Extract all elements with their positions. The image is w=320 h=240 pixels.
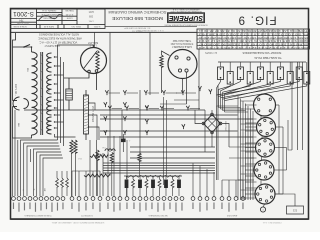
ballast lamp pin 2 (95, 70, 98, 73)
bridge corner terminal right (219, 122, 222, 125)
voltage table row line 1 (197, 31, 310, 33)
tip jack grid extra 2 (209, 89, 212, 94)
wire terminal C stems (107, 136, 109, 196)
svg-text:ARE TAKEN WITH AN ELECTRONIC: ARE TAKEN WITH AN ELECTRONIC (38, 37, 82, 41)
wire trunk to analyzer bus 5 (225, 111, 249, 113)
transformer T1 primary top lead (24, 47, 32, 52)
voltage table column line 5 (221, 29, 223, 49)
load resistor RL7 (277, 67, 283, 80)
resistor RB4 in cluster (171, 179, 174, 189)
voltage table column line 21 (303, 29, 305, 49)
voltage table column line 20 (297, 29, 299, 49)
electrolytic capacitor CE3 (black) (151, 180, 155, 189)
bridge corner terminal top (211, 113, 214, 116)
wire analyzer bus line 4 (245, 104, 247, 201)
voltage table column line 15 (272, 29, 274, 49)
wire to legend box (275, 194, 295, 206)
voltage table row line 3 (197, 38, 310, 40)
wire filament bus line 2 (60, 57, 62, 143)
title block column line A (36, 9, 38, 29)
svg-text:DATE: DATE (66, 17, 72, 20)
SUPREME logo box (168, 13, 205, 23)
wire trunk to analyzer bus 1 (217, 105, 239, 107)
voltage table column line 1 (201, 29, 203, 49)
wire left drop 1 (14, 110, 16, 196)
tip jack grid 6 (123, 130, 126, 135)
svg-text:SCALE NONE: SCALE NONE (13, 25, 27, 28)
terminal strip F terminal 2 label (199, 203, 200, 212)
terminal strip B terminal 5 (98, 197, 102, 201)
wire jack A 5 stub (185, 92, 197, 94)
bridge corner terminal bottom (211, 131, 214, 134)
load resistor bank bus (218, 61, 306, 63)
terminal strip B terminal 3 (84, 197, 88, 201)
terminal strip F terminal 2 (198, 197, 202, 201)
wire horizontal bus 13 (103, 172, 215, 174)
terminal strip E terminal 7 label (169, 203, 170, 210)
svg-text:MODEL 559 DELUXE: MODEL 559 DELUXE (112, 16, 163, 21)
svg-text:PRI.: PRI. (26, 68, 28, 73)
jack row A 3 (144, 90, 147, 95)
wire right link stub a (276, 104, 280, 106)
wire mid drop c (102, 153, 104, 196)
terminal strip A terminal 5 (34, 197, 38, 201)
svg-text:TO ANALYZER PLUG: TO ANALYZER PLUG (254, 56, 281, 60)
wire socket horiz 100 (174, 99, 199, 101)
transformer T1 primary bottom lead (21, 135, 32, 138)
terminal strip E terminal 3 label (145, 203, 146, 211)
divider tap line 1 (89, 103, 96, 110)
wire transformer tap 10 (55, 127, 58, 129)
terminal strip C terminal 3 label (119, 203, 120, 211)
pilot lamp under socket V5 (260, 207, 265, 212)
terminal strip B terminal 4 label (92, 203, 93, 210)
wire RL3 return (221, 80, 241, 91)
terminal strip E terminal 1 (132, 197, 136, 201)
wire mid drop b (96, 140, 98, 196)
wire horizontal bus 3 (100, 118, 253, 120)
svg-text:SUPREME: SUPREME (169, 14, 203, 21)
wire vertical 218 (217, 85, 219, 180)
terminal strip A terminal 8 label (51, 203, 52, 212)
bridge corner terminal left (202, 122, 205, 125)
voltage table column line 4 (216, 29, 218, 49)
resistor R13 horizontal (84, 174, 110, 177)
title block outline (11, 9, 106, 29)
terminal strip E terminal 6 (162, 197, 166, 201)
electrolytic capacitor CE5 (black) (177, 180, 181, 189)
voltage table column line 9 (241, 29, 243, 49)
wire horizontal bus 10 (103, 165, 215, 167)
jack row B 5 (186, 106, 189, 111)
wire socket horiz 104 (160, 103, 187, 105)
wire socket horiz 93 (176, 92, 183, 94)
top band lower rule (11, 31, 198, 33)
wire fan segment 7 (43, 158, 63, 196)
svg-text:CHECKED W.B.: CHECKED W.B. (41, 13, 57, 15)
voltage table column line 11 (251, 29, 253, 49)
wire bank trunk line 5 (224, 94, 226, 112)
svg-text:S-2001: S-2001 (93, 25, 101, 27)
transformer T1 secondary winding S4 (47, 117, 52, 134)
title block row line 1 (11, 18, 37, 20)
svg-text:110 V. 60 ~: 110 V. 60 ~ (14, 84, 17, 97)
tip jack grid 5 (104, 130, 107, 135)
wire RL6 return (217, 84, 271, 95)
wire jack A 1 stub (109, 92, 121, 94)
title block bottom row divider a (39, 25, 41, 29)
svg-text:SOCKET VOLTAGE READINGS: SOCKET VOLTAGE READINGS (242, 51, 281, 55)
terminal strip E terminal 2 (138, 197, 142, 201)
wire bank trunk line 2 (218, 89, 220, 107)
wire left drop 3 (17, 140, 19, 196)
terminal strip A terminal 10 label (62, 203, 63, 210)
voltage table column line 10 (246, 29, 248, 49)
line switch SW (24, 45, 30, 48)
resistor R6 vertical (96, 150, 99, 161)
wire right tall 2 (297, 62, 299, 150)
wire bridge left lead (195, 110, 202, 124)
resistor RB3 in cluster (158, 179, 161, 189)
analyzer socket pin 2 (187, 57, 190, 60)
wire analyzer bus line 2 (240, 99, 242, 201)
wire fan segment 6 (40, 155, 62, 196)
wire right horizontals (229, 146, 256, 148)
resistor RB1 in cluster (132, 179, 135, 189)
wire jack B 3 stub (149, 108, 160, 110)
svg-text:FIL 5.0 2.0 2.0 2.5 1.5 2.5 2.: FIL 5.0 2.0 2.0 2.5 1.5 2.5 2.0 2.0 2.0 … (198, 32, 308, 35)
load resistor RL8 (287, 72, 293, 85)
terminal strip A terminal 7 (45, 197, 49, 201)
divider tap line 2 (89, 115, 98, 140)
wire R5 bottom (161, 68, 163, 93)
svg-text:MA 3.0 2.3 1.3 4 6.2 5 3.1 12: MA 3.0 2.3 1.3 4 6.2 5 3.1 12 1.7 14.5 2… (198, 46, 308, 49)
voltage table column line 17 (282, 29, 284, 49)
wire horizontal bus 8 (130, 157, 215, 159)
wire RL2 return (219, 84, 231, 89)
voltage table column line 8 (236, 29, 238, 49)
AC line wire upper (13, 33, 16, 101)
AC line wire lower (13, 107, 22, 139)
wire secondary bottom (55, 134, 76, 137)
svg-text:TUBE ELEMENT TERMINALS: TUBE ELEMENT TERMINALS (24, 214, 52, 217)
title block row line mid2 (37, 15, 78, 17)
wire jack bundle vertical b (166, 100, 168, 176)
electrolytic capacitor CE2 (black) (138, 180, 142, 189)
load resistor RL10 (304, 72, 310, 85)
analyzer socket pin 1 (175, 56, 178, 59)
terminal strip E terminal 2 label (139, 203, 140, 212)
wire trunk to analyzer bus 3 (221, 108, 244, 110)
resistor R7 vertical (110, 153, 113, 164)
load resistor RL3 (237, 67, 243, 80)
wire inter-socket link 3 (261, 157, 263, 161)
terminal strip G terminal 1 label (221, 203, 222, 210)
terminal strip G terminal 3 (234, 197, 238, 201)
test socket V2 (6 pin) (257, 118, 276, 137)
jack row B 2 (125, 106, 128, 111)
electrolytic capacitor CE1 (black) (125, 180, 129, 189)
wire mid drop a (89, 140, 91, 196)
svg-text:SUPREME INSTRUMENTS CORP., GRE: SUPREME INSTRUMENTS CORP., GREENWOOD, MI… (51, 221, 104, 223)
svg-text:PLATE 135 180 180 250 180 250: PLATE 135 180 180 250 180 250 180 180 18… (198, 36, 308, 39)
svg-text:VOLTMETER AT 117 V. 60 ~ A.C.: VOLTMETER AT 117 V. 60 ~ A.C. (38, 40, 77, 44)
wire CE2 leads (139, 176, 141, 179)
wire RL8 return (221, 84, 291, 98)
wire transformer tap 3 (55, 74, 64, 76)
AC line plug body (13, 97, 28, 110)
terminal strip A terminal 8 (50, 197, 54, 201)
title block row line mid (37, 12, 63, 14)
svg-text:FIG. 9: FIG. 9 (237, 13, 276, 25)
svg-text:8-17-39: 8-17-39 (65, 13, 73, 15)
title block signature scribble (38, 15, 63, 21)
voltage table column line 6 (226, 29, 228, 49)
wire bank return trunk (216, 106, 218, 180)
wire RL7 return (219, 80, 281, 97)
divider tap dots (85, 94, 87, 96)
wire RL9 return (223, 80, 300, 100)
wire terminal D stem (126, 140, 128, 196)
wire analyzer bus line 6 (250, 109, 252, 201)
AC plug prong bottom (13, 106, 18, 108)
wire right link stub b (276, 126, 284, 128)
wire inter-socket link 1 (260, 116, 262, 119)
wire trunk to analyzer bus 4 (223, 110, 246, 112)
voltage table column line 16 (277, 29, 279, 49)
svg-text:ANALYZER: ANALYZER (226, 214, 237, 217)
legend box bottom right (287, 206, 304, 214)
terminal strip B terminal 1 (70, 197, 74, 201)
terminal strip B terminal 2 (77, 197, 81, 201)
analyzer socket pin 4 (185, 69, 188, 72)
title block bottom row divider d (87, 25, 89, 29)
wire socket right link 1 (278, 105, 280, 194)
title block column line C (76, 9, 78, 25)
wire inter-socket link 2 (261, 137, 263, 139)
terminal strip E terminal 3 (144, 197, 148, 201)
terminal strip E terminal 5 label (157, 203, 158, 212)
wire transformer tap 4 (55, 83, 58, 85)
load resistor RL9 (296, 67, 302, 80)
wire right tall 1 (291, 62, 293, 150)
terminal strip E terminal 9 label (181, 203, 182, 211)
terminal strip G terminal 4 label (242, 203, 243, 210)
wire transformer tap 2 (55, 65, 61, 67)
tip jack grid extra 1 (198, 86, 201, 91)
svg-text:8-4 = 9 SW: 8-4 = 9 SW (16, 22, 28, 24)
wire right link stub e (275, 193, 283, 195)
wire filament bus line 1 (57, 52, 59, 140)
jack row B 1 (108, 106, 111, 111)
wire bank trunk line 4 (222, 92, 224, 110)
terminal strip A terminal 10 (61, 197, 65, 201)
wire pilot lamp stem (263, 204, 264, 207)
wire analyzer bus line 1 (237, 96, 239, 200)
svg-text:NOTE: ALL VOLTAGE READINGS: NOTE: ALL VOLTAGE READINGS (39, 33, 79, 37)
tip jack grid 4 (123, 116, 126, 121)
analyzer socket pin 3 (178, 69, 181, 72)
voltage table column line 2 (206, 29, 208, 49)
jack row B 4 (160, 106, 163, 111)
svg-text:SCHEMATIC WIRING DIAGRAM: SCHEMATIC WIRING DIAGRAM (108, 10, 166, 14)
wire vertical 199 (198, 49, 200, 110)
wire inter-socket link 4 (260, 180, 262, 185)
wire transformer tap 9 (55, 121, 64, 123)
ballast lamp internal resistor (96, 51, 99, 71)
wire CE4 leads (165, 176, 167, 179)
wire bridge bottom lead (211, 134, 213, 147)
wire analyzer bus line 7 (252, 111, 254, 200)
wire socket pin stubs upper (241, 100, 255, 102)
load resistor RL6 (267, 72, 273, 85)
voltage table column line 14 (267, 29, 269, 49)
wire jack A 3 stub (148, 92, 160, 94)
load resistor RL1 (218, 67, 224, 80)
terminal strip F terminal 4 label (213, 203, 214, 210)
wire fan segment 3 (27, 146, 59, 196)
frame bottom emphasis (11, 218, 309, 220)
AC plug prong top (13, 100, 18, 102)
svg-text:VOLT. DIVIDER: VOLT. DIVIDER (91, 106, 93, 123)
ballast lamp lead right (96, 72, 98, 90)
wire CE3 leads (152, 176, 154, 179)
wire vertical center 110 (109, 32, 111, 152)
terminal strip A terminal 6 label (40, 203, 41, 211)
divider tap line 3 (89, 127, 100, 140)
tip jack col3 3 (145, 130, 148, 135)
wire jack A 2 stub (127, 92, 139, 94)
voltage table row line 5 (197, 45, 310, 47)
title block row line 3 (11, 24, 106, 26)
title block row line 2 (11, 21, 37, 23)
analyzer socket U1 circle (168, 50, 197, 79)
svg-text:DWG. NO.: DWG. NO. (71, 25, 81, 27)
wire vertical 150 (149, 32, 151, 95)
load resistor RL4 (247, 72, 253, 85)
wire right link stub c (275, 147, 287, 149)
wire CE5 leads (178, 176, 180, 179)
wire horizontal bus 9 (103, 162, 215, 164)
wire fan segment 4 (34, 149, 61, 196)
terminal strip C terminal 2 label (113, 203, 114, 212)
svg-text:CHG.: CHG. (88, 19, 94, 21)
cluster top zigzag bumps (126, 175, 180, 177)
load resistor RL5 (257, 67, 263, 80)
svg-text:6.3V: 6.3V (47, 88, 49, 93)
wire horizontal bus 6 (130, 146, 215, 148)
resistor group zigzags above terminals (56, 178, 59, 188)
wire horizontal bus 12 (103, 170, 215, 172)
terminal strip E terminal 5 (156, 197, 160, 201)
voltage table column line 18 (287, 29, 289, 49)
title block row line mid3 (37, 19, 78, 21)
wire RL5 return (225, 80, 261, 94)
terminal strip E terminal 4 (150, 197, 154, 201)
capacitor C1 lead bottom (68, 100, 70, 110)
svg-text:5Z3: 5Z3 (292, 208, 297, 211)
rectifier bridge outline (204, 115, 221, 133)
wire jack B 5 stub (190, 108, 201, 110)
transformer T1 core line 2 (42, 52, 44, 135)
terminal strip C terminal 2 (112, 197, 116, 201)
ballast lamp pin 1 (88, 70, 91, 73)
wire jack B 1 stub (112, 108, 123, 110)
wire horizontal bus 11 (103, 167, 215, 169)
wire terminal B stems (71, 171, 73, 196)
wire RL1 return (217, 80, 221, 89)
terminal strip G terminal 4 (241, 197, 245, 201)
transformer T1 secondary winding S3 (47, 97, 52, 115)
terminal strip A terminal 4 label (29, 203, 30, 210)
divider lead bottom (85, 134, 87, 140)
tip jack grid 2 (123, 102, 126, 107)
terminal strip F terminal 1 label (192, 203, 193, 210)
terminal strip E terminal 9 (180, 197, 184, 201)
test socket V3 (6 pin) (256, 138, 275, 157)
terminal strip C terminal 1 (106, 197, 110, 201)
terminal strip A terminal 1 label (13, 203, 14, 210)
terminal strip B terminal 3 label (85, 203, 86, 211)
wire right bus horizontal stubs (245, 104, 257, 106)
wire R7 down (111, 163, 113, 196)
title block column line B (61, 9, 63, 25)
voltage table column line 19 (292, 29, 294, 49)
transformer T1 core line 1 (40, 52, 42, 135)
bridge inner diagonals (208, 119, 216, 127)
wire filament bus line 3 (63, 62, 65, 146)
jack row A 2 (123, 90, 126, 95)
wire socket stem2 (186, 72, 188, 104)
terminal strip F terminal 3 (205, 197, 209, 201)
wire horizontal bus 5 (100, 136, 253, 138)
wire left drop 2 (12, 138, 14, 196)
test socket V1 (4 pin) (254, 94, 276, 116)
terminal strip A terminal 2 label (18, 203, 19, 212)
ballast top lead (81, 45, 94, 48)
resistor R12 horizontal (90, 155, 108, 158)
filter capacitor C1 body (66, 89, 73, 100)
terminal strip E terminal 6 label (163, 203, 164, 211)
buffer capacitor C7 (black) (121, 139, 126, 143)
wire G bus (222, 179, 243, 181)
wire jack bundle vertical a (163, 97, 165, 185)
svg-text:DRAWN J.F.H.: DRAWN J.F.H. (41, 9, 56, 12)
wire left drop 4 (29, 149, 31, 162)
wire bus top connections (58, 45, 81, 52)
wire jack A 4 stub (166, 92, 178, 94)
terminal strip A terminal 4 (28, 197, 32, 201)
terminal strip E terminal 8 label (175, 203, 176, 212)
resistor R8 vertical (138, 153, 141, 162)
wire jack B 4 stub (164, 108, 175, 110)
wire vertical 205 (204, 110, 206, 152)
wire R8 down (139, 162, 141, 176)
divider lead top (85, 90, 87, 95)
tip jack grid extra 3 (182, 124, 185, 129)
wire horizontal bus 7 (130, 151, 215, 153)
transformer T1 primary winding (32, 52, 38, 135)
svg-text:TYPE 01A 1A6 1C6 24 26 27 30 3: TYPE 01A 1A6 1C6 24 26 27 30 31 32 33 34… (198, 29, 308, 32)
load resistor RL2 (227, 72, 233, 85)
wire RL10 return (225, 84, 307, 101)
wire bank trunk line 1 (216, 88, 218, 106)
tip jack grid 1 (104, 102, 107, 107)
wire terminal B bus (72, 170, 100, 172)
resistor R11 vertical (74, 140, 77, 154)
voltage table row line 4 (197, 41, 310, 43)
wire bank trunk line 3 (220, 91, 222, 109)
